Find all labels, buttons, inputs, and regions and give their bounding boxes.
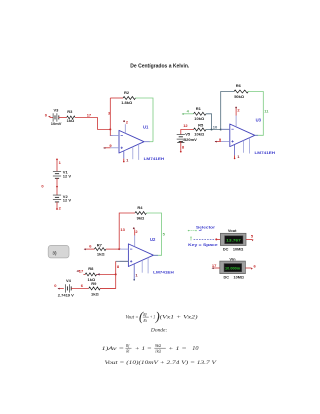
- node 6 stub to R7: [84, 248, 94, 250]
- svg-text:10: 10: [213, 125, 218, 130]
- svg-text:1kΩ: 1kΩ: [91, 292, 99, 297]
- switch pivot mark: [199, 229, 201, 230]
- wire U1 output green: [149, 141, 153, 143]
- wire V1 to V2: [56, 178, 58, 195]
- wire junction down to U1 inverting input: [110, 129, 112, 135]
- wire Vin right / node 6: [245, 267, 251, 269]
- resistor R2 1.8k: [123, 97, 135, 100]
- svg-text:0: 0: [54, 283, 57, 288]
- svg-text:5: 5: [251, 234, 254, 239]
- svg-text:10MΩ: 10MΩ: [234, 276, 244, 280]
- switch throw stub A (green dashed): [188, 230, 189, 231]
- svg-text:V3: V3: [54, 107, 60, 112]
- svg-text:2.7419 V: 2.7419 V: [58, 293, 74, 298]
- pin 1 U2: [133, 264, 135, 280]
- wire R1 right to node 10 (dark): [206, 114, 212, 130]
- svg-text:8: 8: [182, 144, 185, 149]
- svg-text:1: 1: [135, 272, 138, 277]
- svg-text:13: 13: [120, 227, 125, 232]
- battery V5 -320mV: [177, 135, 185, 142]
- svg-text:9kΩ: 9kΩ: [137, 215, 145, 220]
- svg-text:Vout: Vout: [228, 228, 237, 233]
- wire R2 right to feedback corner (green): [135, 98, 153, 142]
- svg-text:4: 4: [187, 108, 190, 113]
- svg-text:-320mV: -320mV: [183, 137, 198, 142]
- svg-text:1)Av =: 1)Av =: [102, 345, 125, 352]
- resistor R7 1k: [95, 248, 106, 251]
- op-amp U3 LM741EH: [221, 124, 255, 154]
- battery V4 2.7419V: [66, 284, 72, 292]
- pin 1 U3 node 1: [234, 144, 236, 155]
- resistor R9 1k: [89, 287, 100, 290]
- svg-text:Vout =: Vout =: [126, 316, 139, 321]
- svg-text:3): 3): [52, 250, 57, 255]
- svg-text:R6: R6: [236, 83, 242, 88]
- pin V+ U2 node 2: [134, 235, 136, 247]
- wire V2 bottom / node 2: [56, 202, 58, 209]
- wire R7 to U2 inverting input / node 13 junction: [106, 248, 121, 250]
- svg-text:V5: V5: [185, 132, 191, 137]
- svg-text:R5: R5: [198, 122, 204, 127]
- node 3 junction: [109, 128, 111, 130]
- svg-text:U1: U1: [143, 124, 149, 129]
- svg-text:6: 6: [81, 283, 84, 288]
- svg-text:17: 17: [212, 263, 217, 268]
- battery V2 12V: [53, 195, 61, 202]
- svg-text:10kΩ: 10kΩ: [194, 116, 205, 121]
- annotation box 3): [48, 245, 69, 258]
- svg-text:12 V: 12 V: [63, 198, 72, 203]
- svg-text:+ 1 =: + 1 =: [135, 346, 152, 352]
- svg-text:R4: R4: [137, 205, 143, 210]
- svg-text:R9: R9: [91, 281, 97, 286]
- wire node 3 vertical to R2: [109, 98, 111, 129]
- svg-text:12 V: 12 V: [63, 174, 72, 179]
- svg-text:9kΩ: 9kΩ: [155, 344, 161, 348]
- svg-text:1kΩ: 1kΩ: [155, 350, 161, 354]
- svg-text:Ri: Ri: [142, 319, 146, 323]
- equation line 1: Vout = (Rf/Ri + 1)(Vx1 + Vx2): [126, 309, 198, 323]
- svg-text:(Vx1 + Vx2): (Vx1 + Vx2): [160, 314, 198, 321]
- resistor R1 10k: [194, 112, 206, 115]
- svg-text:10kΩ: 10kΩ: [194, 132, 205, 137]
- svg-text:R1: R1: [196, 106, 202, 111]
- wire R9 right to corner: [100, 287, 116, 289]
- svg-text:17: 17: [79, 268, 84, 273]
- op-amp U1 LM741EH: [110, 130, 144, 160]
- svg-text:10: 10: [192, 345, 199, 352]
- battery V3: [53, 113, 59, 121]
- node 9 stub at U3 non-inverting input: [215, 140, 221, 142]
- wire V5 top to R5: [181, 130, 194, 135]
- svg-text:Rf: Rf: [142, 313, 147, 317]
- wire node1 to V1: [56, 159, 58, 171]
- wire V3 to R3: [59, 116, 67, 118]
- svg-text:Vin: Vin: [229, 256, 236, 261]
- svg-text:0: 0: [41, 184, 44, 189]
- node 0 junction between supplies: [56, 186, 58, 188]
- switch lever (blue dashed): [194, 238, 215, 240]
- svg-text:10.000m: 10.000m: [225, 267, 240, 271]
- svg-text:V4: V4: [66, 278, 72, 283]
- svg-text:LM741EH: LM741EH: [255, 150, 276, 155]
- svg-text:Ri: Ri: [125, 350, 129, 354]
- svg-text:Vout = (10)(10mV + 2.74 V) = 1: Vout = (10)(10mV + 2.74 V) = 13.7 V: [105, 359, 218, 366]
- wire R6 feedback loop left (dark): [221, 92, 234, 130]
- node 4 green stub to R1: [182, 113, 193, 115]
- svg-text:R8: R8: [88, 266, 94, 271]
- svg-text:2: 2: [59, 206, 62, 211]
- wire Vin left / node 17: [212, 267, 220, 269]
- svg-text:Selector: Selector: [196, 225, 216, 230]
- svg-text:1kΩ: 1kΩ: [67, 118, 75, 123]
- svg-text:13.767: 13.767: [226, 239, 241, 243]
- wire V5 bottom node 8 stub: [180, 141, 182, 151]
- svg-text:R3: R3: [67, 109, 73, 114]
- wire U2 output pin: [154, 254, 159, 256]
- equation line 3: 1)Av = Rf/Ri + 1 = 9kOhm/1kOhm + 1 = 10: [102, 344, 200, 354]
- wire R4 right to U2 output (green, node 5): [146, 213, 161, 255]
- svg-text:1: 1: [237, 154, 240, 159]
- svg-text:Donde:: Donde:: [150, 329, 168, 334]
- wire node 17 R3 to corner: [75, 116, 98, 118]
- svg-text:1: 1: [126, 158, 129, 163]
- wire V3 left stub: [50, 116, 53, 118]
- wire U2 non-inverting input (node 8): [116, 260, 129, 262]
- svg-text:8: 8: [117, 264, 120, 269]
- svg-text:2: 2: [237, 107, 240, 112]
- svg-text:2: 2: [126, 119, 129, 124]
- svg-text:0: 0: [45, 113, 48, 118]
- wire V4 to R9 / node 6: [71, 287, 89, 289]
- svg-text:50kΩ: 50kΩ: [234, 94, 245, 99]
- battery V1 12V: [53, 171, 61, 178]
- svg-text:10mV: 10mV: [51, 121, 62, 126]
- wire node 10 into U3 inverting input: [206, 129, 230, 131]
- resistor R5 10k: [194, 128, 206, 131]
- svg-text:DC: DC: [224, 276, 230, 280]
- svg-text:1: 1: [59, 160, 62, 165]
- node 1 supply top: [56, 159, 58, 161]
- svg-text:5: 5: [163, 231, 166, 236]
- wire corner down: [98, 117, 111, 129]
- svg-text:11: 11: [264, 109, 269, 114]
- wire R2 left leg: [110, 97, 123, 99]
- svg-text:R7: R7: [97, 242, 103, 247]
- svg-text:U3: U3: [256, 118, 262, 123]
- wire R6 right to U3 output (green, node 11): [248, 92, 263, 136]
- svg-text:2: 2: [135, 229, 138, 234]
- pin V+ U3 node 2: [235, 115, 237, 127]
- svg-text:10MΩ: 10MΩ: [233, 248, 243, 252]
- resistor R8 1k: [83, 273, 85, 275]
- svg-text:LM741EH: LM741EH: [144, 156, 165, 161]
- wire R4 left leg / node 13 vertical: [119, 213, 135, 249]
- svg-text:Key = Space: Key = Space: [188, 242, 218, 247]
- svg-text:Rf: Rf: [125, 344, 130, 348]
- svg-text:1.8kΩ: 1.8kΩ: [121, 100, 133, 105]
- node 9 stub at U1 non-inverting input: [104, 147, 111, 149]
- resistor R6 50k: [234, 90, 248, 93]
- pin 1 U1 (offset null) node 1: [123, 151, 125, 159]
- svg-text:R2: R2: [124, 90, 130, 95]
- resistor R4 9k: [135, 212, 146, 215]
- node 0 stub left of V4: [58, 287, 64, 289]
- svg-text:+ 1 =: + 1 =: [168, 346, 187, 352]
- wire Vout right / node 5: [246, 238, 252, 240]
- svg-text:17: 17: [87, 113, 92, 118]
- op-amp U2 LM741EH: [120, 244, 154, 274]
- switch common to voltmeter (red): [215, 238, 217, 240]
- switch throw stub B (green): [190, 237, 191, 238]
- wire U1 output pin: [144, 141, 150, 143]
- svg-text:6: 6: [89, 243, 92, 248]
- svg-text:12: 12: [183, 123, 188, 128]
- svg-text:6: 6: [254, 263, 257, 268]
- svg-text:De Centígrados a Kelvin.: De Centígrados a Kelvin.: [130, 64, 190, 70]
- wire U3 output pin: [255, 134, 258, 136]
- svg-text:1kΩ: 1kΩ: [97, 252, 105, 257]
- resistor R3 1k: [67, 116, 75, 119]
- pin V+ U1 node 2: [124, 124, 126, 133]
- svg-text:LM741EH: LM741EH: [153, 269, 174, 274]
- svg-text:U2: U2: [150, 237, 156, 242]
- svg-text:DC: DC: [223, 248, 229, 252]
- node 17 stub to R8: [77, 270, 80, 272]
- wire R8 right to node 8 vertical (with arrow): [97, 273, 116, 275]
